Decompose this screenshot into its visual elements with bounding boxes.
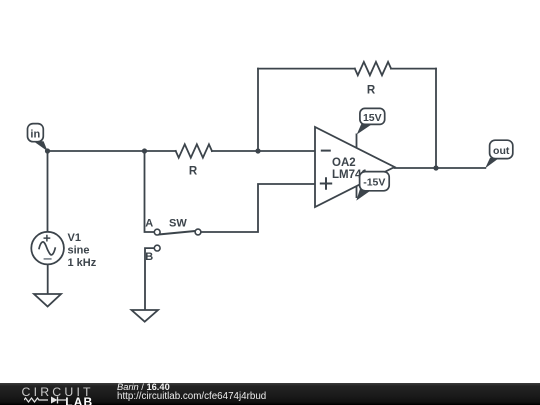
node flag in: pointer xyxy=(34,141,48,151)
node junction dot at in xyxy=(45,148,50,153)
ground under switch B xyxy=(132,310,159,322)
V1 minus mark xyxy=(44,258,52,260)
switch terminal B circle xyxy=(154,245,160,251)
CircuitLab logo text LAB xyxy=(65,395,93,405)
svg-text:SW: SW xyxy=(169,218,187,230)
node flag out: box xyxy=(490,140,513,158)
svg-text:B: B xyxy=(145,251,153,263)
svg-text:OA2: OA2 xyxy=(332,157,356,169)
op-amp plus input mark xyxy=(320,177,332,189)
svg-text:A: A xyxy=(145,217,153,229)
power flag 15V: box xyxy=(360,108,385,124)
svg-text:15V: 15V xyxy=(363,112,382,124)
resistor R1 (mid) zigzag xyxy=(176,144,212,157)
switch common terminal circle xyxy=(195,229,201,235)
wire R1 right to op-amp minus input xyxy=(212,150,315,152)
footer author/title xyxy=(117,382,170,392)
wire in node down to V1 xyxy=(47,151,49,232)
resistor R2 (feedback) zigzag xyxy=(355,62,391,75)
CircuitLab logo text CIRCUIT xyxy=(22,385,94,399)
svg-text:-15V: -15V xyxy=(363,177,385,189)
footer url xyxy=(117,391,266,402)
switch terminal A circle xyxy=(154,229,160,235)
footer bar xyxy=(0,383,540,405)
V1 sine squiggle xyxy=(39,242,56,255)
wire switch B to ground xyxy=(145,248,154,310)
feedback wire top left segment xyxy=(258,68,355,70)
wire junction A drop (node to switch A) xyxy=(145,151,155,232)
voltage source V1 circle xyxy=(31,232,64,265)
wire in node to R1 left xyxy=(48,150,176,152)
wire V1 bottom to ground xyxy=(47,265,49,294)
node flag in: box xyxy=(28,124,44,142)
svg-text:R: R xyxy=(189,166,198,178)
node flag out: pointer xyxy=(485,158,499,168)
svg-text:R: R xyxy=(367,85,376,97)
power flag -15V: pointer xyxy=(356,189,370,201)
op-amp OA2 power pin V- xyxy=(356,187,358,199)
op-amp OA2 triangle xyxy=(315,127,395,207)
node junction dot at minus/feedback xyxy=(255,148,260,153)
node junction dot at R1 left branch xyxy=(142,148,147,153)
power flag 15V: pointer xyxy=(357,124,373,135)
power flag -15V: box xyxy=(360,172,390,191)
svg-text:V1: V1 xyxy=(68,232,81,244)
svg-text:out: out xyxy=(493,145,510,157)
feedback wire down to output node xyxy=(435,69,437,168)
op-amp OA2 power pin V+ xyxy=(356,134,358,149)
wire plus input to switch common xyxy=(201,184,315,232)
op-amp minus input mark xyxy=(321,150,331,152)
wire op-amp output to out label xyxy=(395,167,486,169)
feedback wire top right segment xyxy=(391,68,436,70)
svg-text:sine: sine xyxy=(68,245,90,257)
feedback wire up from minus node xyxy=(257,69,259,151)
switch SW lever xyxy=(159,231,196,235)
svg-text:1 kHz: 1 kHz xyxy=(68,257,97,269)
CircuitLab logo glyph: resistor + diode xyxy=(24,396,68,404)
V1 plus mark xyxy=(44,235,51,242)
svg-text:in: in xyxy=(30,128,40,140)
node junction dot at output xyxy=(433,165,438,170)
ground under V1 xyxy=(34,294,61,307)
